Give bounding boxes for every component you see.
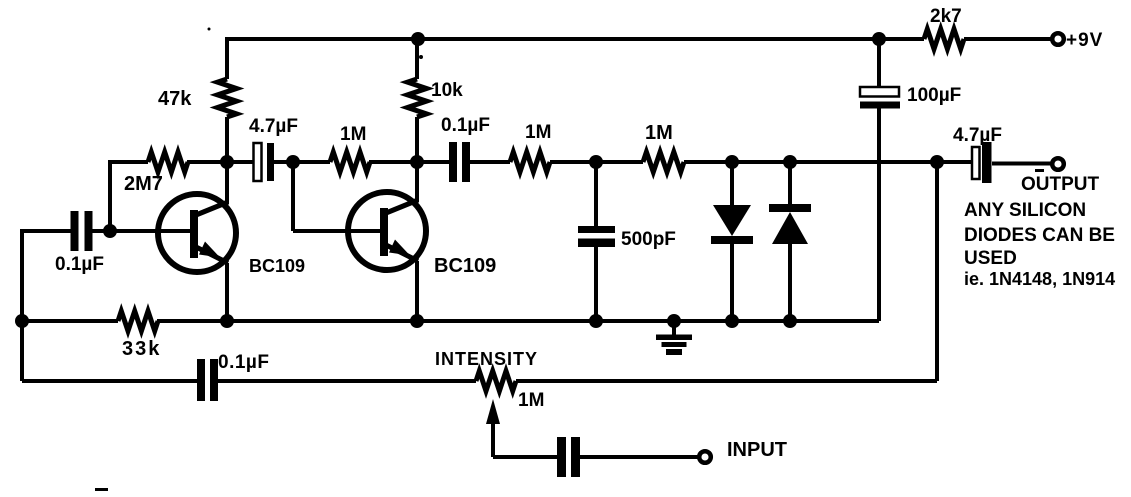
svg-text:100µF: 100µF <box>907 85 961 106</box>
node K (left rail / 33k) <box>15 314 29 328</box>
wire 2M7 right lead <box>187 160 227 164</box>
capacitor C5 0.1uF (feedback bottom) <box>197 359 218 401</box>
wire 33k left lead <box>22 319 118 323</box>
potentiometer VR1 1M INTENSITY <box>476 371 516 391</box>
wire left rail vertical <box>20 229 24 381</box>
speck top left <box>208 28 211 31</box>
svg-text:0.1µF: 0.1µF <box>218 352 269 373</box>
wire D1 cathode lead <box>730 244 734 321</box>
wire 10k top lead <box>415 39 419 79</box>
node N (C4 bottom / bottom rail) <box>589 314 603 328</box>
node P (D1 bottom) <box>725 314 739 328</box>
wire C2 left lead <box>233 160 253 164</box>
wire R6 right lead <box>550 160 596 164</box>
svg-text:4.7µF: 4.7µF <box>249 116 298 137</box>
wire D1 anode lead <box>730 162 734 205</box>
node F (10k / R5 / C3 / Q2 collector) <box>410 155 424 169</box>
wire input row right <box>580 455 698 459</box>
wire 2M7 left lead <box>110 160 148 164</box>
svg-text:OUTPUT: OUTPUT <box>1021 174 1100 195</box>
speck above OUTPUT <box>1035 169 1044 172</box>
transistor Q2 BC109 <box>348 192 426 321</box>
svg-text:47k: 47k <box>158 88 192 110</box>
wire D2 anode lead <box>788 244 792 321</box>
svg-text:0.1µF: 0.1µF <box>55 254 104 275</box>
svg-text:DIODES CAN BE: DIODES CAN BE <box>964 225 1115 246</box>
wire C2 right lead <box>274 160 293 164</box>
svg-text:1M: 1M <box>525 122 551 143</box>
node Q (D2 bottom) <box>783 314 797 328</box>
node H (D1 top) <box>725 155 739 169</box>
wire top rail right segment <box>964 37 1051 41</box>
wire R5 right lead <box>369 160 449 164</box>
terminal +9V <box>1052 33 1064 45</box>
wire C4 500pF top lead <box>594 162 598 226</box>
node D (top rail / 100uF / 2k7) <box>872 32 886 46</box>
ground <box>656 335 692 356</box>
speck above 10k <box>419 55 423 59</box>
node I (D2 top) <box>783 155 797 169</box>
svg-text:1M: 1M <box>645 122 673 144</box>
capacitor C1 0.1uF (Q1 base input) <box>71 211 93 251</box>
svg-text:INPUT: INPUT <box>727 439 787 461</box>
svg-text:2M7: 2M7 <box>124 173 163 195</box>
svg-text:0.1µF: 0.1µF <box>441 115 490 136</box>
svg-text:10k: 10k <box>431 80 463 101</box>
terminal INPUT <box>699 451 711 463</box>
svg-text:500pF: 500pF <box>621 229 676 250</box>
resistor R5 1M <box>330 152 370 172</box>
svg-text:4.7µF: 4.7µF <box>953 125 1002 146</box>
terminal OUTPUT <box>1052 158 1064 170</box>
node M (Q2 emitter / bottom rail) <box>410 314 424 328</box>
wire Q2 base vertical <box>291 160 295 231</box>
wire output cap right lead <box>992 162 1051 166</box>
capacitor C8 (input coupling) <box>557 437 580 477</box>
resistor R3 2M7 <box>148 152 188 172</box>
resistor R7 1M <box>643 152 684 172</box>
diode D2 (pointing up) <box>769 204 811 244</box>
wire C4 500pF bottom lead <box>594 246 598 321</box>
resistor R6 1M <box>510 152 550 172</box>
wire C1 left lead <box>22 229 71 233</box>
node A (47k / 2M7 / C2 / Q1 collector) <box>220 155 234 169</box>
wire D2 cathode lead <box>788 162 792 204</box>
resistor R4 33k <box>118 311 158 331</box>
svg-text:ANY SILICON: ANY SILICON <box>964 200 1086 221</box>
node O (ground junction) <box>667 314 681 328</box>
wire C6 100uF top lead <box>877 39 881 87</box>
svg-text:ie. 1N4148, 1N914: ie. 1N4148, 1N914 <box>964 269 1115 289</box>
wire Q2 base horizontal <box>293 229 380 233</box>
wire right vertical from output node <box>935 160 939 381</box>
svg-text:1M: 1M <box>340 124 366 145</box>
capacitor C3 0.1uF (after 10k) <box>449 142 470 182</box>
resistor R1 47k <box>218 79 237 117</box>
wire 47k top lead <box>225 37 229 79</box>
capacitor C4 500pF <box>578 226 615 247</box>
svg-text:+9V: +9V <box>1066 30 1103 51</box>
wire Q1 collector lead <box>225 117 229 204</box>
svg-text:BC109: BC109 <box>434 255 496 277</box>
svg-text:INTENSITY: INTENSITY <box>435 349 538 369</box>
svg-text:33k: 33k <box>122 338 161 360</box>
wire bottom rail <box>157 319 879 323</box>
node B (Q1 base / C1 / 2M7 vertical) <box>103 224 117 238</box>
node J (output node) <box>930 155 944 169</box>
transistor Q1 BC109 <box>158 194 236 321</box>
wire input row left <box>493 455 557 459</box>
wire R5 left lead <box>293 160 330 164</box>
wire C3 right lead <box>470 160 510 164</box>
node C (top rail / 10k) <box>411 32 425 46</box>
node G (R6 / R7 / C4) <box>589 155 603 169</box>
wire pot wiper stem <box>491 424 495 457</box>
diode D1 (pointing down) <box>711 205 753 244</box>
wire R7 right lead to output node <box>684 160 937 164</box>
capacitor C7 4.7uF (output, polarized) <box>972 142 992 183</box>
wire R7 left lead <box>596 160 643 164</box>
node E (C2 / R5 / Q2 base) <box>286 155 300 169</box>
svg-text:1M: 1M <box>518 390 544 411</box>
pot wiper arrow <box>486 399 500 424</box>
svg-text:BC109: BC109 <box>249 256 305 276</box>
svg-text:USED: USED <box>964 248 1017 269</box>
resistor R8 2k7 <box>924 29 964 49</box>
wire C1 right lead to Q1 base <box>93 229 191 233</box>
capacitor C6 100uF (supply decoupling, polarized) <box>860 87 900 109</box>
wire Q2 collector lead <box>415 117 419 202</box>
wire top rail left segment <box>227 37 924 41</box>
wire output cap left lead <box>937 160 972 164</box>
wire C5 right lead <box>218 379 476 383</box>
wire bottom feedback row left <box>22 379 197 383</box>
capacitor C2 4.7uF (interstage, polarized) <box>254 143 275 181</box>
wire ground stem <box>672 321 676 335</box>
wire pot right lead to right vertical <box>516 379 937 383</box>
speck bottom left <box>95 488 108 491</box>
resistor R2 10k <box>408 79 427 117</box>
wire C6 100uF bottom lead <box>877 108 881 321</box>
wire 2M7 left vertical <box>108 160 112 231</box>
node L (33k / Q1 emitter) <box>220 314 234 328</box>
svg-text:2k7: 2k7 <box>930 6 962 27</box>
